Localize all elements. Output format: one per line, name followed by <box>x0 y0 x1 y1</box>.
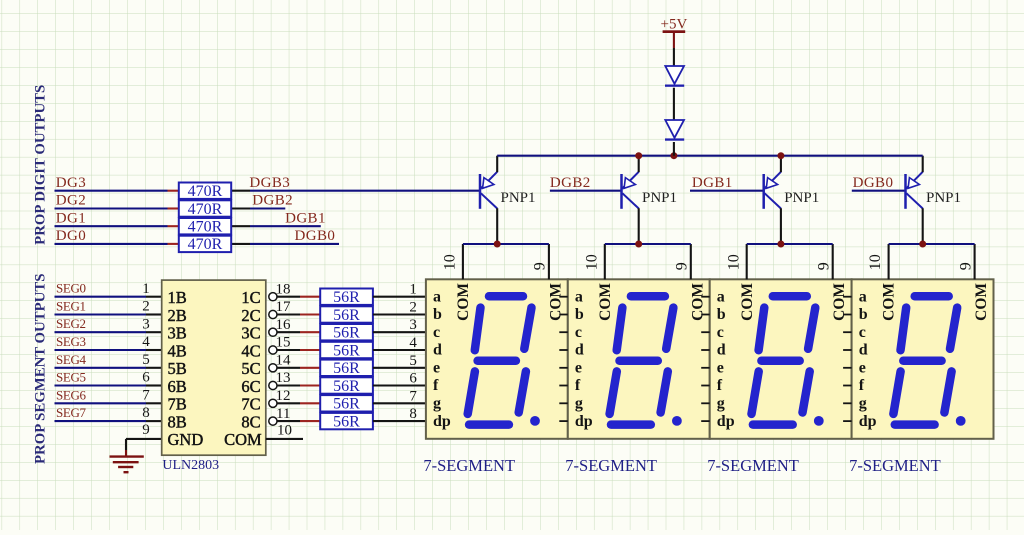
7-segment display #2 body <box>568 279 710 439</box>
svg-text:a: a <box>433 288 441 305</box>
svg-text:e: e <box>433 360 440 377</box>
svg-text:10: 10 <box>725 254 742 270</box>
svg-text:SEG5: SEG5 <box>56 370 86 385</box>
junction collector Q2 to COM <box>635 241 642 248</box>
svg-text:PNP1: PNP1 <box>784 190 819 206</box>
svg-text:7C: 7C <box>241 395 260 414</box>
display #1 segment dp <box>530 416 540 426</box>
svg-text:6C: 6C <box>241 377 260 396</box>
wire 56R to display pin 3 <box>373 331 426 333</box>
svg-text:9: 9 <box>957 262 974 270</box>
display #1 segment g <box>478 356 516 365</box>
svg-text:7-SEGMENT: 7-SEGMENT <box>707 456 799 475</box>
svg-text:56R: 56R <box>333 360 360 377</box>
svg-text:c: c <box>717 324 724 341</box>
display #4 segment a <box>915 292 949 301</box>
svg-text:7-SEGMENT: 7-SEGMENT <box>565 456 657 475</box>
ULN2803 output bubble pin 16 <box>269 328 277 336</box>
svg-text:f: f <box>575 377 581 394</box>
svg-text:2: 2 <box>142 299 150 315</box>
display #4 segment dp <box>956 416 966 426</box>
ULN2803 output bubble pin 14 <box>269 364 277 372</box>
svg-text:56R: 56R <box>333 325 360 342</box>
display #2 segment g <box>620 356 658 365</box>
wire ULN2803 pin 13 to 56R <box>277 384 320 386</box>
diode D2 (bottom) <box>665 120 684 141</box>
display #4 segment f <box>901 308 907 351</box>
svg-text:1B: 1B <box>168 288 187 307</box>
display #2 pin 9 stub <box>690 244 692 279</box>
wire COM display #3 <box>747 243 833 245</box>
display #4 segment e <box>893 371 900 414</box>
display #2 segment dp <box>672 416 682 426</box>
display #4 segment d <box>895 420 935 429</box>
wire DGB2 stub <box>250 207 285 209</box>
wire +5V rail <box>497 155 923 157</box>
wire ULN2803 pin 12 to 56R <box>277 402 320 404</box>
display #4 pin 9 stub <box>974 244 976 279</box>
svg-text:10: 10 <box>867 254 884 270</box>
svg-text:g: g <box>717 395 725 412</box>
7-segment display #3 body <box>710 279 852 439</box>
svg-text:+5V: +5V <box>661 17 688 33</box>
svg-text:8: 8 <box>142 405 150 421</box>
display #3 segment e <box>752 371 759 414</box>
wire ULN2803 pin 17 to 56R <box>277 313 320 315</box>
svg-text:9: 9 <box>815 262 832 270</box>
display #2 segment b <box>666 308 673 349</box>
svg-text:SEG1: SEG1 <box>56 299 86 314</box>
wire SEG7 <box>55 420 162 422</box>
svg-text:5: 5 <box>409 353 417 369</box>
ULN2803 COM pin 10 stub <box>266 438 303 440</box>
wire DGB0 stub <box>250 243 339 245</box>
svg-text:7B: 7B <box>168 395 187 414</box>
svg-text:5C: 5C <box>241 359 260 378</box>
svg-text:470R: 470R <box>188 219 223 236</box>
wire DGB0 (to Q4 base) <box>852 190 906 192</box>
svg-text:COM: COM <box>224 430 262 449</box>
wire DGB3 (470R to Q1 base) <box>250 190 480 192</box>
svg-text:56R: 56R <box>333 378 360 395</box>
svg-text:e: e <box>575 360 582 377</box>
ULN2803 output bubble pin 15 <box>269 346 277 354</box>
svg-text:COM: COM <box>455 283 472 321</box>
svg-text:6B: 6B <box>168 377 187 396</box>
wire COM display #1 <box>463 243 549 245</box>
power +5V bar symbol <box>663 30 686 48</box>
svg-text:2B: 2B <box>168 306 187 325</box>
svg-text:470R: 470R <box>188 236 223 253</box>
junction collector Q1 to COM <box>494 241 501 248</box>
transistor PNP1 #3 emitter pin <box>780 156 782 173</box>
svg-text:DGB1: DGB1 <box>692 175 733 191</box>
svg-text:dp: dp <box>433 413 451 430</box>
ULN2803 output bubble pin 18 <box>269 293 277 301</box>
wire 56R to display pin 8 <box>373 420 426 422</box>
svg-text:c: c <box>859 324 866 341</box>
display #1 segment a <box>489 292 523 301</box>
svg-text:DG0: DG0 <box>56 228 86 244</box>
svg-text:9: 9 <box>532 262 549 270</box>
svg-text:DG3: DG3 <box>56 175 86 191</box>
svg-text:ULN2803: ULN2803 <box>162 458 219 473</box>
wire 56R to display pin 7 <box>373 402 426 404</box>
svg-text:a: a <box>717 288 725 305</box>
wire GND pin 9 <box>126 439 162 450</box>
svg-text:d: d <box>859 342 868 359</box>
svg-text:b: b <box>717 306 726 323</box>
wire DGB1 (to Q3 base) <box>690 190 764 192</box>
wire DG1 <box>55 225 168 227</box>
ULN2803 output bubble pin 13 <box>269 381 277 389</box>
svg-text:9: 9 <box>142 422 150 438</box>
wire SEG1 <box>55 313 162 315</box>
svg-text:f: f <box>859 377 865 394</box>
display #2 pin 10 stub <box>604 244 606 279</box>
display #3 segment f <box>759 308 765 351</box>
svg-text:COM: COM <box>739 283 756 321</box>
transistor PNP1 #2 collector pin <box>638 208 640 244</box>
diode D1 (top) <box>665 66 684 87</box>
svg-text:2: 2 <box>409 300 417 316</box>
svg-text:DG1: DG1 <box>56 210 86 226</box>
transistor PNP1 #2 <box>622 172 639 209</box>
svg-text:SEG4: SEG4 <box>56 352 87 367</box>
wire COM display #4 <box>889 243 975 245</box>
resistor 56R #2 <box>320 306 373 324</box>
wire 56R to display pin 5 <box>373 367 426 369</box>
wire ULN2803 pin 18 to 56R <box>277 296 320 298</box>
display #3 segment dp <box>814 416 824 426</box>
svg-text:SEG3: SEG3 <box>56 334 86 349</box>
svg-text:7: 7 <box>409 388 417 404</box>
svg-text:SEG2: SEG2 <box>56 316 86 331</box>
wire ULN2803 pin 15 to 56R <box>277 349 320 351</box>
svg-text:2C: 2C <box>241 306 260 325</box>
svg-text:a: a <box>575 288 583 305</box>
display #2 unconnected left pin stubs <box>559 297 568 421</box>
display #2 segment f <box>617 308 623 351</box>
svg-text:18: 18 <box>276 281 291 297</box>
7-segment display #4 body <box>852 279 994 439</box>
wire 56R to display pin 4 <box>373 349 426 351</box>
wire SEG4 <box>55 367 162 369</box>
svg-text:PROP SEGMENT OUTPUTS: PROP SEGMENT OUTPUTS <box>33 274 49 464</box>
svg-text:9: 9 <box>674 262 691 270</box>
svg-text:GND: GND <box>168 430 204 449</box>
svg-text:dp: dp <box>575 413 593 430</box>
svg-text:g: g <box>575 395 583 412</box>
svg-text:8C: 8C <box>241 412 260 431</box>
display #3 segment c <box>803 371 810 412</box>
svg-text:56R: 56R <box>333 289 360 306</box>
display #3 segment g <box>761 356 799 365</box>
wire SEG2 <box>55 331 162 333</box>
junction collector Q3 to COM <box>777 241 784 248</box>
display #3 pin 10 stub <box>746 244 748 279</box>
svg-text:14: 14 <box>276 353 292 369</box>
transistor PNP1 #2 emitter pin <box>638 156 640 173</box>
junction on rail at diodes <box>670 152 677 159</box>
svg-text:e: e <box>859 360 866 377</box>
svg-text:COM: COM <box>881 283 898 321</box>
svg-text:PNP1: PNP1 <box>926 190 961 206</box>
svg-text:PROP DIGIT OUTPUTS: PROP DIGIT OUTPUTS <box>33 85 49 245</box>
svg-text:10: 10 <box>442 254 459 270</box>
svg-text:3: 3 <box>409 317 417 333</box>
svg-text:16: 16 <box>276 317 292 333</box>
resistor 470R #2 (DG2) <box>168 200 251 218</box>
wire diode2 to rail <box>673 142 675 156</box>
svg-text:470R: 470R <box>188 201 223 218</box>
transistor PNP1 #1 collector pin <box>496 208 498 244</box>
svg-text:f: f <box>433 377 439 394</box>
display #2 segment e <box>610 371 617 414</box>
svg-text:e: e <box>717 360 724 377</box>
display #4 pin 10 stub <box>888 244 890 279</box>
svg-text:g: g <box>433 395 441 412</box>
transistor PNP1 #4 emitter pin <box>922 156 924 173</box>
svg-text:d: d <box>433 342 442 359</box>
svg-text:g: g <box>859 395 867 412</box>
display #3 segment a <box>773 292 807 301</box>
wire SEG3 <box>55 349 162 351</box>
display #1 segment f <box>475 308 481 351</box>
svg-text:1C: 1C <box>241 288 260 307</box>
svg-text:d: d <box>575 342 584 359</box>
svg-text:3B: 3B <box>168 324 187 343</box>
svg-text:PNP1: PNP1 <box>501 190 536 206</box>
svg-text:3C: 3C <box>241 324 260 343</box>
svg-text:SEG6: SEG6 <box>56 387 87 402</box>
svg-text:COM: COM <box>973 283 990 321</box>
display #1 pin 9 stub <box>548 244 550 279</box>
junction on rail at Q2 <box>635 152 642 159</box>
resistor 56R #8 <box>320 413 373 431</box>
display #1 segment b <box>524 308 531 349</box>
display #1 segment d <box>469 420 509 429</box>
svg-text:7: 7 <box>142 387 150 403</box>
resistor 470R #1 (DG3) <box>168 183 251 201</box>
junction collector Q4 to COM <box>919 241 926 248</box>
svg-text:dp: dp <box>717 413 735 430</box>
wire +5V to diode 1 <box>673 48 675 66</box>
display #2 segment c <box>661 371 668 412</box>
svg-text:f: f <box>717 377 723 394</box>
svg-text:15: 15 <box>276 335 291 351</box>
display #2 segment a <box>631 292 665 301</box>
svg-text:DGB2: DGB2 <box>550 175 591 191</box>
svg-text:4C: 4C <box>241 341 260 360</box>
svg-text:1: 1 <box>142 281 150 297</box>
wire diode1 to diode2 <box>673 88 675 121</box>
svg-text:PNP1: PNP1 <box>642 190 677 206</box>
svg-text:dp: dp <box>859 413 877 430</box>
ULN2803 output bubble pin 11 <box>269 417 277 425</box>
wire ULN2803 pin 16 to 56R <box>277 331 320 333</box>
svg-text:5B: 5B <box>168 359 187 378</box>
svg-text:11: 11 <box>276 406 290 422</box>
wire COM display #2 <box>605 243 691 245</box>
resistor 56R #1 <box>320 289 373 307</box>
resistor 56R #3 <box>320 324 373 342</box>
display #1 segment e <box>468 371 475 414</box>
svg-text:6: 6 <box>142 370 150 386</box>
svg-text:10: 10 <box>277 422 292 438</box>
transistor PNP1 #1 emitter pin <box>496 156 498 173</box>
resistor 56R #5 <box>320 360 373 378</box>
svg-text:b: b <box>575 306 584 323</box>
resistor 470R #3 (DG1) <box>168 218 251 236</box>
ULN2803 output bubble pin 17 <box>269 310 277 318</box>
display #3 segment d <box>753 420 793 429</box>
wire SEG6 <box>55 402 162 404</box>
svg-text:c: c <box>433 324 440 341</box>
svg-text:7-SEGMENT: 7-SEGMENT <box>423 456 515 475</box>
display #3 unconnected left pin stubs <box>701 297 710 421</box>
junction on rail at Q3 <box>777 152 784 159</box>
svg-text:d: d <box>717 342 726 359</box>
svg-text:DGB2: DGB2 <box>252 193 293 209</box>
ground symbol <box>110 450 144 472</box>
display #2 segment d <box>611 420 651 429</box>
svg-text:a: a <box>859 288 867 305</box>
svg-text:4B: 4B <box>168 341 187 360</box>
svg-text:COM: COM <box>597 283 614 321</box>
svg-text:7-SEGMENT: 7-SEGMENT <box>849 456 941 475</box>
svg-text:DG2: DG2 <box>56 193 86 209</box>
resistor 56R #4 <box>320 342 373 360</box>
display #4 segment g <box>903 356 941 365</box>
svg-text:4: 4 <box>142 334 150 350</box>
svg-text:c: c <box>575 324 582 341</box>
svg-text:SEG0: SEG0 <box>56 281 86 296</box>
wire SEG5 <box>55 384 162 386</box>
svg-text:b: b <box>859 306 868 323</box>
7-segment display #1 body <box>426 279 568 439</box>
IC ULN2803 body <box>162 280 266 455</box>
wire DGB1 stub <box>250 225 321 227</box>
svg-text:10: 10 <box>583 254 600 270</box>
display #4 segment b <box>950 308 957 349</box>
transistor PNP1 #1 <box>480 172 497 209</box>
resistor 56R #6 <box>320 377 373 395</box>
svg-text:8B: 8B <box>168 412 187 431</box>
svg-text:DGB0: DGB0 <box>853 175 894 191</box>
svg-text:56R: 56R <box>333 396 360 413</box>
transistor PNP1 #3 collector pin <box>780 208 782 244</box>
wire ULN2803 pin 14 to 56R <box>277 367 320 369</box>
svg-text:b: b <box>433 306 442 323</box>
svg-text:12: 12 <box>276 388 291 404</box>
svg-text:8: 8 <box>409 406 417 422</box>
svg-text:DGB3: DGB3 <box>249 175 290 191</box>
svg-text:470R: 470R <box>188 183 223 200</box>
svg-text:DGB1: DGB1 <box>285 210 326 226</box>
display #3 pin 9 stub <box>832 244 834 279</box>
svg-text:1: 1 <box>409 282 417 298</box>
display #4 unconnected left pin stubs <box>843 297 852 421</box>
wire DG2 <box>55 207 168 209</box>
wire 56R to display pin 6 <box>373 384 426 386</box>
transistor PNP1 #3 <box>764 172 781 209</box>
wire DGB2 (to Q2 base) <box>550 190 622 192</box>
display #4 segment c <box>944 371 951 412</box>
resistor 56R #7 <box>320 395 373 413</box>
transistor PNP1 #4 <box>906 172 923 209</box>
display #1 pin 10 stub <box>462 244 464 279</box>
svg-text:DGB0: DGB0 <box>295 228 336 244</box>
wire DG0 <box>55 243 168 245</box>
display #3 segment b <box>808 308 815 349</box>
svg-text:56R: 56R <box>333 342 360 359</box>
wire ULN2803 pin 11 to 56R <box>277 420 320 422</box>
resistor 470R #4 (DG0) <box>168 236 251 254</box>
svg-text:56R: 56R <box>333 413 360 430</box>
svg-text:SEG7: SEG7 <box>56 405 87 420</box>
svg-text:17: 17 <box>276 299 292 315</box>
svg-text:3: 3 <box>142 316 150 332</box>
wire SEG0 <box>55 296 162 298</box>
svg-text:5: 5 <box>142 352 150 368</box>
svg-text:56R: 56R <box>333 307 360 324</box>
wire 56R to display pin 2 <box>373 313 426 315</box>
svg-text:6: 6 <box>409 371 417 387</box>
wire 56R to display pin 1 <box>373 296 426 298</box>
ULN2803 output bubble pin 12 <box>269 399 277 407</box>
svg-text:4: 4 <box>409 335 417 351</box>
svg-text:13: 13 <box>276 370 291 386</box>
wire DG3 <box>55 190 168 192</box>
display #1 segment c <box>519 371 526 412</box>
transistor PNP1 #4 collector pin <box>922 208 924 244</box>
